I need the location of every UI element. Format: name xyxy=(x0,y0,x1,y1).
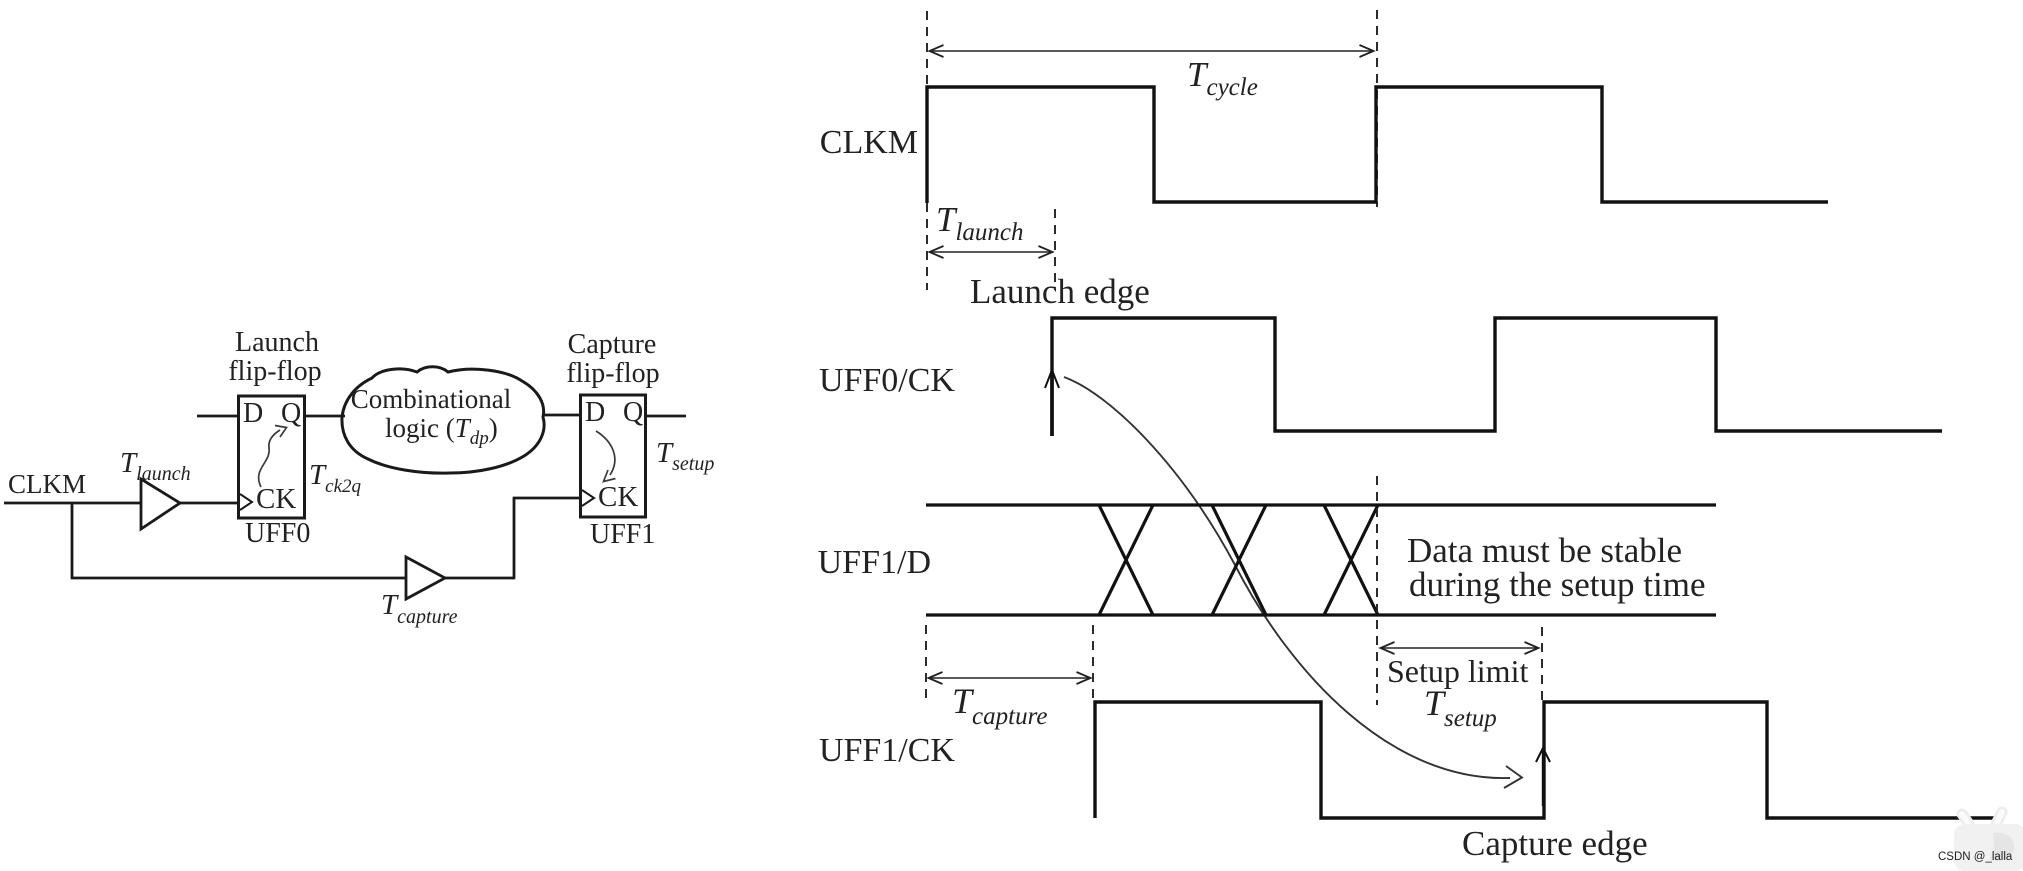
dashed guide T_launch-end x1055 xyxy=(1054,209,1056,290)
combinational logic cloud xyxy=(342,367,544,473)
bus UFF1/D top line xyxy=(926,503,1716,506)
svg-text:UFF1: UFF1 xyxy=(590,519,655,550)
svg-text:flip-flop: flip-flop xyxy=(228,356,321,387)
arrow clock path curve launch-to-capture xyxy=(1064,377,1522,788)
arrow D to CK inside UFF1 xyxy=(596,431,616,482)
wire buffer1 to UFF0 CK xyxy=(180,502,240,505)
svg-text:Tsetup: Tsetup xyxy=(1424,683,1497,732)
wire clock branch lower horizontal xyxy=(71,577,407,580)
wire riser vertical xyxy=(513,498,516,579)
svg-text:Capture: Capture xyxy=(568,329,657,360)
svg-text:Tlaunch: Tlaunch xyxy=(936,200,1024,246)
svg-text:Combinational: Combinational xyxy=(351,384,511,414)
svg-text:Capture edge: Capture edge xyxy=(1462,824,1648,863)
svg-text:Tcapture: Tcapture xyxy=(952,681,1047,730)
dashed guide capture-end x1093 xyxy=(1092,625,1094,703)
svg-text:Launch: Launch xyxy=(235,327,319,358)
waveform UFF1/CK xyxy=(1095,702,1994,818)
svg-text:Tlaunch: Tlaunch xyxy=(120,447,191,485)
arrow capture edge marker xyxy=(1536,748,1550,762)
svg-text:Setup limit: Setup limit xyxy=(1387,653,1528,689)
svg-text:CLKM: CLKM xyxy=(8,469,86,499)
dashed guide setup-end x1542 xyxy=(1541,627,1543,700)
buffer U_capture (T_capture) xyxy=(406,557,445,599)
svg-text:Tck2q: Tck2q xyxy=(309,459,362,497)
watermark CSDN logo xyxy=(1954,812,2023,871)
svg-text:UFF1/CK: UFF1/CK xyxy=(819,732,955,769)
svg-text:Tcycle: Tcycle xyxy=(1187,55,1258,101)
svg-text:Q: Q xyxy=(281,398,301,429)
wire UFF1 Q out xyxy=(646,415,686,418)
dashed guide launch-edge x927 xyxy=(926,11,928,290)
arrow T_capture xyxy=(929,677,1090,679)
svg-text:UFF0/CK: UFF0/CK xyxy=(819,362,955,399)
arrow launch edge marker xyxy=(1045,370,1059,436)
clock wedge UFF0 xyxy=(240,494,252,510)
wire UFF0 Q to cloud xyxy=(305,415,345,418)
svg-text:during the setup time: during the setup time xyxy=(1409,565,1705,604)
svg-text:D: D xyxy=(585,397,605,428)
svg-text:UFF1/D: UFF1/D xyxy=(818,544,931,581)
svg-text:Tsetup: Tsetup xyxy=(656,437,714,475)
waveform CLKM xyxy=(927,87,1828,203)
dashed guide cycle-end x1377 upper xyxy=(1376,10,1378,207)
wire buffer2 to riser xyxy=(445,577,514,580)
svg-text:D: D xyxy=(243,398,263,429)
waveform UFF0/CK xyxy=(1052,318,1942,436)
data transition X3 xyxy=(1324,505,1378,615)
wire cloud to UFF1 D xyxy=(544,414,581,417)
flip-flop UFF1 box xyxy=(581,395,646,517)
data transition X1 xyxy=(1099,505,1153,615)
clock wedge UFF1 xyxy=(582,490,594,506)
arrow CK to Q inside UFF0 xyxy=(259,426,287,488)
svg-text:Tcapture: Tcapture xyxy=(381,589,458,628)
wire riser to UFF1 CK xyxy=(513,497,582,500)
svg-text:UFF0: UFF0 xyxy=(245,518,310,549)
svg-text:logic (Tdp): logic (Tdp) xyxy=(385,413,498,449)
bus UFF1/D bottom line xyxy=(926,613,1716,616)
dashed guide setup-start x1377 lower xyxy=(1376,476,1378,705)
wire D input UFF0 xyxy=(197,415,238,418)
buffer U_launch (T_launch) xyxy=(141,479,180,529)
dashed guide capture-start x926 xyxy=(925,625,927,705)
svg-text:CK: CK xyxy=(256,483,296,515)
flip-flop UFF0 box xyxy=(239,396,305,518)
svg-text:flip-flop: flip-flop xyxy=(566,358,659,389)
svg-text:Q: Q xyxy=(623,397,643,428)
arrow T_launch xyxy=(930,251,1052,253)
svg-text:CLKM: CLKM xyxy=(820,124,918,161)
arrow T_cycle xyxy=(930,50,1373,52)
svg-text:CK: CK xyxy=(598,481,638,513)
svg-text:Launch edge: Launch edge xyxy=(970,272,1150,311)
wire clock branch vertical xyxy=(71,503,74,578)
data transition X2 xyxy=(1212,505,1266,615)
arrow Setup limit xyxy=(1381,647,1538,649)
wire CLKM main xyxy=(4,502,141,505)
svg-text:CSDN @_lalla: CSDN @_lalla xyxy=(1938,851,2013,863)
